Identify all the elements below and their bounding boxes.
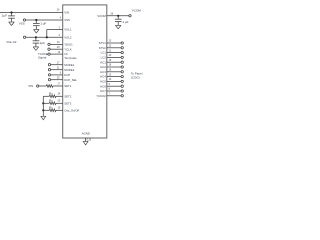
ground (C3) [33,47,39,51]
svg-text:SET3: SET3 [64,101,71,105]
wire HC7 [107,90,121,92]
node Osc bus junction [42,109,44,111]
svg-text:1µF: 1µF [2,14,7,18]
wire LC2 [107,56,121,58]
svg-text:7: 7 [109,93,111,96]
wire SET2 right [56,95,63,97]
svg-text:VGL1/2: VGL1/2 [6,40,17,44]
svg-text:VIN: VIN [28,84,33,88]
capacitor C1 1uF [8,13,15,22]
svg-text:15: 15 [109,73,112,76]
svg-text:9: 9 [109,83,111,86]
svg-text:DCP: DCP [64,73,70,77]
ground (C4) [115,25,121,29]
svg-text:HC5: HC5 [100,80,106,84]
svg-text:25: 25 [57,76,60,79]
node VSS junction [35,19,37,21]
wire SET3 left [43,102,49,104]
svg-text:HC3: HC3 [100,70,106,74]
svg-text:SET2: SET2 [64,94,71,98]
node MODE2 terminal [48,69,50,71]
svg-text:5,33: 5,33 [87,139,92,142]
wire HC1 [107,61,121,63]
wire HC2 [107,66,121,68]
svg-text:1 µF: 1 µF [40,21,46,25]
svg-text:VCOM: VCOM [132,8,142,12]
wire Osc left [43,109,49,111]
wire SET1 left [39,85,46,87]
svg-text:26: 26 [57,9,60,12]
ground (C1) [9,22,15,26]
svg-text:YCKO2: YCKO2 [96,94,106,98]
node VCOM terminal [129,15,131,17]
node YDIO1 terminal [48,43,50,45]
svg-text:YCLK: YCLK [64,47,71,51]
wire SET1 right [53,85,63,87]
svg-text:VCOM: VCOM [97,14,106,18]
node VGL junction cap [35,36,37,38]
svg-text:VGL2: VGL2 [64,35,72,39]
wire I/C [50,53,63,55]
ground (bus arrow) [41,116,46,120]
svg-text:23: 23 [109,40,112,43]
node YCLK terminal [48,48,50,50]
node VIN junction [10,11,12,13]
node DCP terminal [48,74,50,76]
resistor R4 Rx [49,109,56,112]
capacitor C3 1uF [33,37,40,47]
svg-text:LC2: LC2 [101,56,107,60]
wire LC1 [107,52,121,54]
node SET1 terminal [37,85,39,87]
wire DCP [51,74,63,76]
wire VSS rail [26,19,63,21]
node VSS terminal [23,19,25,21]
wire YCLK [50,48,63,50]
svg-text:8: 8 [109,88,111,91]
svg-text:VSS: VSS [19,22,25,26]
wire YDIO1 [50,43,63,45]
svg-text:19: 19 [109,59,112,62]
svg-text:22: 22 [109,45,112,48]
svg-text:YDIO1: YDIO1 [64,43,73,47]
svg-text:16: 16 [109,69,112,72]
svg-text:HC4: HC4 [100,75,106,79]
svg-text:STV1: STV1 [99,41,106,45]
svg-text:16: 16 [58,51,61,54]
capacitor C2 1uF [33,20,40,29]
svg-text:VGL1: VGL1 [64,28,72,32]
ground (AGND arrow) [83,141,88,145]
wire VCOM [107,15,129,17]
svg-text:20: 20 [109,54,112,57]
wire resistor bus [42,96,44,116]
svg-text:20: 20 [58,100,61,103]
svg-text:1µF: 1µF [40,41,45,45]
svg-text:Rx: Rx [49,91,53,95]
ground (C2) [33,30,39,34]
node MODE1 terminal [48,64,50,66]
node VCOM junction [117,15,119,17]
resistor R3 Rx [49,102,56,105]
wire SET3 right [56,102,63,104]
svg-text:17: 17 [57,83,60,86]
wire SET2 elbow from bus [43,95,49,97]
svg-text:LC1: LC1 [101,51,107,55]
svg-text:AGND: AGND [82,132,90,136]
svg-text:10: 10 [109,78,112,81]
wire AGND stub [85,138,87,141]
wire HC6 [107,85,121,87]
svg-text:30: 30 [57,41,60,44]
resistor R1 [46,85,53,88]
svg-text:1 µF: 1 µF [122,20,128,24]
svg-text:VSS: VSS [64,18,70,22]
svg-text:2: 2 [59,34,61,37]
IC U1 body [63,5,107,138]
svg-text:27: 27 [57,61,60,64]
svg-text:21: 21 [109,49,112,52]
wire Osc right [56,109,63,111]
svg-text:VIN: VIN [64,11,69,15]
capacitor C4 1uF [115,16,122,25]
wire DCP_SEL [51,79,63,81]
wire STV2 [107,47,121,49]
wire YCKO2 [107,95,121,97]
svg-text:STV2: STV2 [99,46,106,50]
svg-text:Rx: Rx [49,105,53,109]
svg-text:MODE1: MODE1 [64,63,74,67]
svg-text:18: 18 [109,64,112,67]
svg-text:24: 24 [58,93,61,96]
svg-text:Signal: Signal [38,55,47,59]
svg-text:DCP_SEL: DCP_SEL [64,78,77,82]
wire VGL1 [47,30,63,38]
svg-text:HC7: HC7 [100,89,106,93]
node I/C terminal [48,53,50,55]
wire MODE1 [51,64,63,66]
node VGL1/2 terminal [23,36,25,38]
node SET3 bus junction [42,102,44,104]
svg-text:6: 6 [60,72,62,75]
wire MODE2 [51,69,63,71]
svg-text:MODE2: MODE2 [64,68,74,72]
svg-text:4: 4 [60,17,62,20]
resistor R2 Rx [49,95,56,98]
wire STV1 [107,42,121,44]
svg-text:31: 31 [57,66,60,69]
node DCP_SEL terminal [48,79,50,81]
svg-text:HC6: HC6 [100,84,106,88]
svg-text:29: 29 [57,46,60,49]
svg-text:28: 28 [110,12,113,15]
svg-text:Terminate: Terminate [64,56,77,60]
svg-text:3: 3 [59,26,61,29]
svg-text:(COG): (COG) [131,76,140,80]
wire HC5 [107,80,121,82]
wire HC4 [107,76,121,78]
svg-text:SET1: SET1 [64,84,71,88]
svg-text:HC1: HC1 [100,60,106,64]
svg-text:Rx: Rx [49,98,53,102]
wire VIN rail [0,12,63,14]
svg-text:19: 19 [58,107,61,110]
wire VGL2 rail [26,36,63,38]
wire HC3 [107,71,121,73]
node VGL junction elbow [46,36,48,38]
svg-text:HC2: HC2 [100,65,106,69]
svg-text:Osc_On/Off: Osc_On/Off [64,108,79,112]
